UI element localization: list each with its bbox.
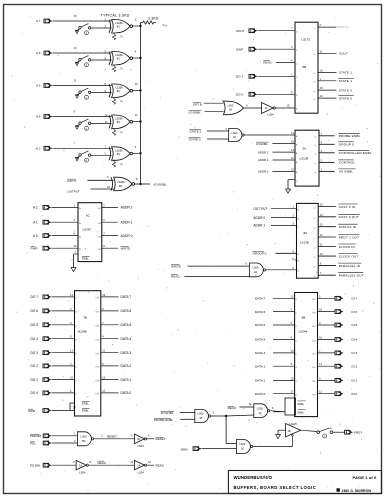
svg-text:DATA 5: DATA 5	[121, 323, 132, 327]
svg-text:4A: 4A	[259, 412, 262, 415]
svg-text:ADDR 1: ADDR 1	[258, 158, 269, 162]
svg-text:RESET: RESET	[107, 435, 117, 439]
svg-text:PRESET: PRESET	[30, 434, 42, 438]
svg-text:16: 16	[102, 293, 105, 297]
svg-text:DATA 3: DATA 3	[255, 351, 265, 355]
svg-text:ENB₁: ENB₁	[298, 411, 304, 415]
svg-text:LS266: LS266	[115, 53, 123, 57]
svg-text:4A: 4A	[233, 136, 236, 139]
svg-text:I/O ENBL: I/O ENBL	[154, 182, 167, 186]
svg-text:DO 0: DO 0	[31, 391, 39, 395]
svg-text:DATA 0: DATA 0	[255, 392, 265, 396]
svg-text:DATA 2: DATA 2	[255, 364, 265, 368]
svg-text:LS125: LS125	[290, 423, 298, 426]
svg-text:5D: 5D	[82, 439, 85, 443]
svg-text:MOM: MOM	[181, 447, 189, 451]
svg-text:3.3KΩ: 3.3KΩ	[148, 17, 159, 21]
svg-text:DATA 5: DATA 5	[255, 323, 265, 327]
svg-text:SOUT: SOUT	[236, 29, 245, 33]
svg-text:LS138: LS138	[300, 157, 309, 161]
svg-text:LS00: LS00	[81, 434, 88, 438]
svg-text:DATA 6: DATA 6	[255, 310, 265, 314]
svg-text:R₀: R₀	[121, 100, 124, 103]
svg-text:DI 6: DI 6	[352, 310, 358, 314]
svg-text:DO 2: DO 2	[31, 364, 39, 368]
svg-text:LS175: LS175	[302, 38, 311, 42]
svg-text:LS266: LS266	[115, 86, 123, 90]
svg-text:PRDY: PRDY	[354, 430, 362, 434]
svg-text:ADDR 0: ADDR 0	[253, 216, 265, 220]
svg-text:DATA 1: DATA 1	[121, 378, 132, 382]
svg-text:10: 10	[135, 82, 138, 86]
svg-text:LS138: LS138	[300, 241, 309, 245]
svg-text:2A: 2A	[303, 147, 307, 151]
svg-text:ADDR 2: ADDR 2	[258, 150, 269, 154]
svg-text:ORT B: ORT B	[193, 103, 202, 107]
svg-text:PO BIN: PO BIN	[30, 464, 40, 468]
svg-text:PROT 1 OUT: PROT 1 OUT	[339, 235, 360, 239]
svg-text:ENB₁: ENB₁	[82, 409, 89, 413]
svg-text:STATE 1: STATE 1	[190, 129, 202, 133]
svg-text:5C: 5C	[241, 448, 244, 451]
svg-text:STATUS IN: STATUS IN	[339, 225, 357, 229]
svg-text:LS04: LS04	[268, 112, 275, 116]
svg-text:7B: 7B	[84, 316, 88, 320]
svg-text:8C: 8C	[117, 57, 120, 61]
svg-text:I/O ENBL: I/O ENBL	[161, 411, 174, 415]
svg-text:ENB₀: ENB₀	[82, 256, 89, 260]
svg-text:INPUT: INPUT	[67, 179, 76, 183]
svg-text:5A: 5A	[137, 438, 140, 441]
svg-text:TYPICAL 3.3KΩ: TYPICAL 3.3KΩ	[101, 13, 130, 17]
svg-text:I/O ENBL: I/O ENBL	[189, 110, 202, 114]
svg-text:CONTROLLER ENBL: CONTROLLER ENBL	[339, 151, 372, 155]
svg-text:LS00: LS00	[239, 443, 245, 446]
svg-text:A 4: A 4	[36, 115, 41, 119]
svg-text:POL: POL	[30, 442, 36, 446]
svg-text:LS266: LS266	[115, 117, 123, 121]
svg-text:BUFFERS, BOARD SELECT LOGIC: BUFFERS, BOARD SELECT LOGIC	[234, 485, 317, 490]
svg-text:8C: 8C	[117, 152, 120, 156]
svg-text:1A: 1A	[79, 464, 82, 467]
svg-text:I/O ENBL: I/O ENBL	[339, 170, 354, 174]
svg-text:PAGE 1 of 6: PAGE 1 of 6	[353, 475, 378, 480]
svg-text:ADDR 0: ADDR 0	[258, 170, 269, 174]
svg-text:STATE 0: STATE 0	[189, 137, 201, 141]
svg-text:PARALLEL IN: PARALLEL IN	[339, 264, 360, 268]
svg-text:ADDR 2: ADDR 2	[121, 206, 133, 210]
svg-text:STATE 1: STATE 1	[339, 71, 353, 75]
svg-text:A 0: A 0	[33, 234, 38, 238]
svg-text:RESET: RESET	[156, 437, 166, 441]
svg-text:DATA 7: DATA 7	[255, 297, 265, 301]
svg-text:4B: 4B	[288, 430, 291, 433]
svg-text:STATE 1: STATE 1	[339, 79, 353, 83]
svg-text:A 2: A 2	[33, 206, 38, 210]
svg-text:LS367: LS367	[83, 228, 92, 232]
svg-text:WRITE: WRITE	[171, 264, 181, 268]
svg-text:DI 3: DI 3	[352, 351, 358, 355]
svg-text:DATA 7: DATA 7	[121, 295, 132, 299]
svg-text:LS244: LS244	[299, 330, 308, 334]
svg-text:DI 0: DI 0	[352, 392, 358, 396]
svg-text:8LS98: 8LS98	[78, 330, 87, 334]
svg-text:SOUT: SOUT	[339, 52, 348, 56]
svg-text:READ: READ	[171, 275, 180, 279]
svg-text:LS04: LS04	[138, 444, 145, 448]
svg-text:OUT PUT: OUT PUT	[253, 207, 267, 211]
svg-text:ADDR 1: ADDR 1	[253, 224, 265, 228]
svg-text:SINP: SINP	[236, 47, 243, 51]
svg-text:ENB₀: ENB₀	[298, 402, 304, 406]
svg-text:DO 1: DO 1	[236, 75, 243, 79]
svg-text:DATA 4: DATA 4	[255, 338, 265, 342]
svg-text:DO 0: DO 0	[236, 93, 243, 97]
svg-text:A 6: A 6	[36, 51, 41, 55]
svg-text:ENB₀: ENB₀	[82, 401, 89, 405]
svg-text:I/O ENBL: I/O ENBL	[256, 142, 268, 146]
svg-text:GROUP 0: GROUP 0	[253, 252, 267, 256]
svg-text:DO 7: DO 7	[31, 295, 39, 299]
svg-text:DO 4: DO 4	[31, 337, 39, 341]
svg-text:6D: 6D	[119, 184, 122, 188]
svg-text:SOUT 1: SOUT 1	[338, 25, 349, 29]
svg-text:CAST 0 OUT: CAST 0 OUT	[339, 215, 359, 219]
svg-text:R₀: R₀	[121, 131, 124, 134]
svg-text:READ: READ	[263, 61, 272, 65]
svg-text:R₀: R₀	[121, 36, 124, 39]
svg-text:8C: 8C	[117, 120, 120, 124]
svg-text:STATE 0: STATE 0	[339, 96, 353, 100]
svg-text:LS00: LS00	[257, 407, 263, 410]
svg-text:DATA 2: DATA 2	[121, 364, 132, 368]
svg-text:DATA 4: DATA 4	[121, 337, 132, 341]
svg-text:DO 6: DO 6	[31, 309, 39, 313]
svg-text:ADDR 0: ADDR 0	[121, 234, 133, 238]
svg-text:A 7: A 7	[36, 19, 41, 23]
svg-text:DI 5: DI 5	[352, 323, 358, 327]
svg-text:PROBE ENBL: PROBE ENBL	[339, 134, 361, 138]
svg-text:PROBE ENBL: PROBE ENBL	[154, 418, 174, 422]
svg-text:1980 G. MORROW: 1980 G. MORROW	[342, 489, 372, 493]
svg-text:PWR: PWR	[31, 246, 39, 250]
svg-text:DI 4: DI 4	[352, 338, 358, 342]
svg-text:DATA 6: DATA 6	[121, 309, 132, 313]
svg-text:A 3: A 3	[36, 147, 41, 151]
svg-text:8C: 8C	[117, 89, 120, 93]
svg-text:8A: 8A	[304, 231, 308, 235]
svg-text:CAST 0 IN: CAST 0 IN	[339, 205, 356, 209]
svg-text:LS08: LS08	[253, 267, 259, 270]
svg-text:OUTPUT: OUTPUT	[67, 189, 80, 193]
svg-text:DI 2: DI 2	[352, 364, 358, 368]
svg-text:SWB: SWB	[28, 409, 35, 413]
svg-text:4A: 4A	[199, 417, 202, 420]
svg-text:READ: READ	[98, 461, 107, 465]
svg-text:8B: 8B	[302, 316, 306, 320]
svg-text:1A: 1A	[265, 107, 268, 110]
svg-text:LS266: LS266	[115, 21, 123, 25]
svg-text:DI 1: DI 1	[352, 379, 358, 383]
svg-text:CLOCK OUT: CLOCK OUT	[339, 254, 359, 258]
svg-text:13: 13	[102, 376, 105, 380]
svg-text:LS04: LS04	[79, 471, 86, 475]
svg-text:DATA 1: DATA 1	[255, 379, 265, 383]
svg-text:DATA 0: DATA 0	[121, 391, 132, 395]
svg-text:LS00: LS00	[198, 413, 204, 416]
svg-text:CONTROL: CONTROL	[339, 161, 356, 165]
svg-text:8C: 8C	[117, 25, 120, 29]
svg-text:17: 17	[102, 389, 105, 393]
svg-text:LS00: LS00	[232, 132, 238, 135]
svg-text:WUNDERBUS®I/O: WUNDERBUS®I/O	[234, 475, 273, 480]
svg-text:LS05: LS05	[228, 105, 234, 108]
svg-text:GROUP 0: GROUP 0	[339, 143, 354, 147]
svg-text:A 1: A 1	[33, 220, 38, 224]
svg-text:4A: 4A	[254, 271, 257, 274]
svg-text:DO 5: DO 5	[31, 323, 39, 327]
svg-text:LS266: LS266	[115, 148, 123, 152]
svg-text:STATE 0: STATE 0	[339, 88, 353, 92]
svg-text:DATA 3: DATA 3	[121, 351, 132, 355]
svg-text:READ: READ	[156, 463, 165, 467]
svg-text:LS266: LS266	[117, 180, 125, 184]
svg-text:5B: 5B	[303, 65, 307, 69]
svg-text:DO 1: DO 1	[31, 378, 39, 382]
svg-text:R₀: R₀	[121, 68, 124, 71]
svg-text:DI 7: DI 7	[352, 297, 358, 301]
svg-text:A 5: A 5	[36, 84, 41, 88]
svg-text:CLOCK IN: CLOCK IN	[339, 245, 355, 249]
svg-text:ADDR 1: ADDR 1	[121, 220, 133, 224]
svg-text:1A: 1A	[137, 464, 140, 467]
svg-text:WRITE: WRITE	[121, 246, 131, 250]
svg-text:5A: 5A	[229, 109, 232, 112]
svg-text:PARALLEL OUT: PARALLEL OUT	[339, 274, 364, 278]
svg-text:DO 3: DO 3	[31, 351, 39, 355]
svg-text:R₀: R₀	[121, 163, 124, 166]
svg-text:LS04: LS04	[138, 471, 145, 475]
